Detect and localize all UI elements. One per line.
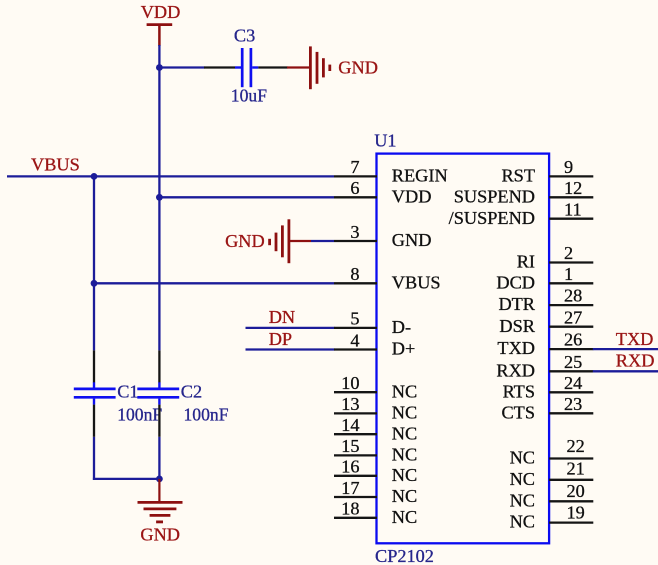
pin 24 (RTS) stub [549, 391, 593, 393]
svg-text:TXD: TXD [497, 338, 535, 358]
svg-text:12: 12 [564, 178, 582, 198]
pin 8 (VBUS) stub [334, 282, 377, 284]
svg-text:C2: C2 [181, 381, 202, 401]
svg-text:28: 28 [564, 286, 582, 306]
svg-text:GND: GND [392, 230, 432, 250]
pin 28 (DTR) stub [549, 304, 593, 306]
svg-text:NC: NC [392, 445, 417, 465]
pin 11 (/SUSPEND) stub [549, 218, 593, 220]
wire TXD [593, 348, 658, 350]
svg-text:10uF: 10uF [231, 85, 267, 105]
svg-text:REGIN: REGIN [392, 166, 448, 186]
svg-text:GND: GND [225, 231, 265, 251]
svg-text:VBUS: VBUS [392, 272, 441, 292]
svg-text:18: 18 [341, 499, 359, 519]
svg-text:NC: NC [392, 465, 417, 485]
capacitor C3 [204, 26, 288, 88]
power port GND (pin 3) [225, 219, 311, 263]
svg-text:6: 6 [350, 178, 359, 198]
wire to C3 [159, 66, 204, 68]
svg-text:NC: NC [510, 448, 535, 468]
svg-text:2: 2 [564, 243, 573, 263]
pin 10 (NC) stub [334, 391, 377, 393]
svg-text:5: 5 [350, 309, 359, 329]
svg-text:17: 17 [341, 478, 359, 498]
svg-text:U1: U1 [374, 131, 396, 151]
svg-text:4: 4 [350, 330, 359, 350]
svg-text:14: 14 [341, 415, 359, 435]
svg-text:RXD: RXD [616, 351, 655, 371]
svg-text:1: 1 [564, 264, 573, 284]
pin 27 (DSR) stub [549, 326, 593, 328]
wire RXD [593, 370, 658, 372]
svg-text:NC: NC [392, 423, 417, 443]
svg-text:NC: NC [510, 469, 535, 489]
svg-text:27: 27 [564, 307, 582, 327]
svg-text:100nF: 100nF [117, 404, 162, 424]
svg-text:NC: NC [392, 507, 417, 527]
svg-text:C3: C3 [234, 26, 255, 46]
svg-text:VDD: VDD [392, 186, 432, 206]
svg-text:RTS: RTS [503, 381, 535, 401]
svg-text:NC: NC [392, 486, 417, 506]
svg-text:DTR: DTR [498, 294, 535, 314]
svg-text:DN: DN [269, 307, 295, 327]
pin 13 (NC) stub [334, 412, 377, 414]
pin 18 (NC) stub [334, 517, 377, 519]
svg-text:26: 26 [564, 330, 582, 350]
svg-text:20: 20 [567, 481, 585, 501]
junction VBUS [91, 173, 98, 180]
pin 21 (NC) stub [549, 479, 593, 481]
svg-text:24: 24 [564, 373, 582, 393]
pin 9 (RST) stub [549, 175, 593, 177]
pin 7 (REGIN) stub [334, 175, 377, 177]
pin 25 (RXD) stub [549, 370, 593, 372]
wire VBUS horizontal [7, 175, 334, 177]
svg-text:RI: RI [517, 252, 535, 272]
power port GND (bottom) [138, 479, 183, 545]
svg-text:C1: C1 [117, 381, 138, 401]
svg-text:D+: D+ [392, 339, 416, 359]
svg-text:3: 3 [350, 222, 359, 242]
junction VDD/pin6 [156, 194, 163, 201]
capacitor C2 [137, 350, 202, 436]
junction VDD/C3 [156, 64, 163, 71]
junction GND bottom [156, 476, 163, 483]
svg-text:GND: GND [140, 525, 180, 545]
pin 17 (NC) stub [334, 496, 377, 498]
svg-text:16: 16 [341, 457, 359, 477]
svg-text:9: 9 [564, 157, 573, 177]
svg-text:22: 22 [567, 436, 585, 456]
pin 1 (DCD) stub [549, 282, 593, 284]
pin 19 (NC) stub [549, 521, 593, 523]
pin 20 (NC) stub [549, 500, 593, 502]
svg-text:100nF: 100nF [184, 404, 229, 424]
pin 16 (NC) stub [334, 475, 377, 477]
svg-text:NC: NC [510, 512, 535, 532]
svg-text:19: 19 [567, 503, 585, 523]
svg-text:GND: GND [338, 58, 378, 78]
svg-text:TXD: TXD [616, 329, 654, 349]
junction VBUS/pin8 [91, 280, 98, 287]
svg-text:D-: D- [392, 317, 411, 337]
svg-text:11: 11 [564, 199, 582, 219]
pin 15 (NC) stub [334, 454, 377, 456]
svg-text:NC: NC [392, 381, 417, 401]
svg-text:10: 10 [341, 373, 359, 393]
svg-text:DSR: DSR [499, 316, 535, 336]
pin 2 (RI) stub [549, 261, 593, 263]
pin 4 (D+) stub [334, 348, 377, 350]
wire DP [246, 348, 335, 350]
svg-text:NC: NC [392, 403, 417, 423]
pin 26 (TXD) stub [549, 348, 593, 350]
pin 5 (D-) stub [334, 327, 377, 329]
capacitor C1 [74, 350, 139, 436]
wire VDD vertical [158, 45, 160, 350]
pin 14 (NC) stub [334, 433, 377, 435]
svg-text:VBUS: VBUS [31, 155, 80, 175]
pin 6 (VDD) stub [334, 196, 377, 198]
svg-text:8: 8 [350, 264, 359, 284]
pin 22 (NC) stub [549, 457, 593, 459]
wire GND to pin 3 [311, 240, 334, 242]
wire DN [246, 327, 335, 329]
svg-text:VDD: VDD [141, 2, 181, 22]
wire VDD vertical lower [158, 437, 160, 480]
pin 23 (CTS) stub [549, 412, 593, 414]
wire bottom horizontal [93, 478, 159, 480]
svg-text:23: 23 [564, 394, 582, 414]
wire VDD to pin 6 [159, 196, 334, 198]
svg-text:DP: DP [269, 329, 292, 349]
svg-text:13: 13 [341, 394, 359, 414]
svg-text:15: 15 [341, 436, 359, 456]
svg-text:NC: NC [510, 490, 535, 510]
svg-text:21: 21 [567, 459, 585, 479]
power port GND (C3) [287, 46, 378, 89]
wire C1 lower [93, 437, 95, 480]
svg-text:SUSPEND: SUSPEND [454, 186, 535, 206]
svg-text:/SUSPEND: /SUSPEND [449, 208, 535, 228]
svg-text:RST: RST [501, 166, 535, 186]
svg-text:CTS: CTS [501, 402, 535, 422]
svg-text:DCD: DCD [496, 272, 535, 292]
pin 12 (SUSPEND) stub [549, 196, 593, 198]
svg-text:CP2102: CP2102 [375, 546, 434, 565]
wire VBUS vertical [93, 176, 95, 350]
power port VDD [141, 2, 181, 46]
IC U1 body [377, 154, 550, 544]
svg-text:7: 7 [350, 157, 359, 177]
pin 3 (GND) stub [334, 240, 377, 242]
wire VBUS to pin 8 [94, 282, 334, 284]
svg-text:25: 25 [564, 352, 582, 372]
svg-text:RXD: RXD [496, 360, 535, 380]
